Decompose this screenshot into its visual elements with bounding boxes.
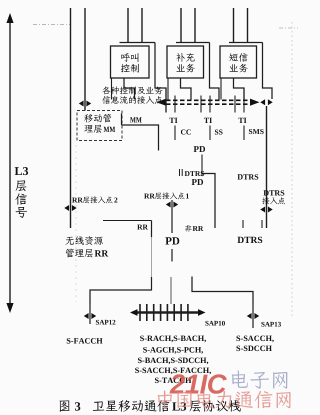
label S-FACCH xyxy=(67,338,103,344)
SAP bowtie SAP13 xyxy=(247,313,259,319)
cap bar above box 呼叫控制 call-control xyxy=(120,42,156,44)
label SAP12 xyxy=(96,320,116,325)
wire TI2-b xyxy=(209,96,211,113)
wire exit-a of box 短信业务 SMS-service xyxy=(220,78,222,100)
box 补充业务 supplementary-service xyxy=(167,46,204,78)
label radio-resource-mgmt RR line2 xyxy=(66,249,109,258)
label SS xyxy=(215,130,223,135)
label 呼叫控制 xyxy=(121,53,139,73)
wire MM-left long vertical xyxy=(70,8,72,228)
wire stair to SAP13 xyxy=(192,277,253,306)
faint dash-dot boundary top-right xyxy=(279,27,298,29)
dashed access line upper xyxy=(166,99,250,101)
wire tick below TI-2 xyxy=(209,126,211,141)
SAP bowtie DTRS-access xyxy=(260,207,272,213)
wire TI1-a xyxy=(165,88,167,113)
wire exit-b stair of box 呼叫控制 call-control xyxy=(124,78,135,100)
arrowhead left of dashed line xyxy=(157,99,167,106)
wire SMS entry 1 xyxy=(233,8,235,43)
caption fig3 xyxy=(60,400,241,412)
box 呼叫控制 call-control xyxy=(111,46,150,78)
label DTRS-access-point xyxy=(262,190,285,204)
watermark 电子网 xyxy=(232,370,288,388)
cap bar above box 补充业务 supplementary-service xyxy=(176,42,210,44)
label TI-3 xyxy=(238,118,246,123)
SAP bowtie RR-access-1 xyxy=(166,202,178,208)
wire exit-b stair of box 短信业务 SMS-service xyxy=(234,78,245,100)
label RR wire xyxy=(137,225,148,230)
wire exit-a of box 呼叫控制 call-control xyxy=(111,78,113,100)
wire PD main vertical lower xyxy=(171,249,172,304)
wire tick below TI-3 xyxy=(243,126,245,141)
comb multi-SAP line with ticks xyxy=(130,304,206,321)
dashed access line lower xyxy=(166,103,250,105)
label SAP10 xyxy=(205,321,225,326)
box 短信业务 SMS-service xyxy=(220,46,257,78)
SAP bowtie SAP12 xyxy=(84,313,96,319)
wire MM bracket xyxy=(122,114,159,151)
label various control/service info flow access points xyxy=(102,86,162,104)
wire DTRS column vertical xyxy=(266,106,268,228)
box mobility-management MM (dashed) xyxy=(77,111,122,141)
wire stair right of box 补充业务 supplementary-service xyxy=(210,43,220,101)
wire SS entry 1 xyxy=(180,8,182,43)
label non-RR xyxy=(185,225,204,232)
label 移动管理层MM xyxy=(84,114,115,133)
wire below PD-1 xyxy=(201,155,203,177)
wire TI1-b xyxy=(174,96,176,113)
wire TI3-a xyxy=(234,96,236,113)
wire TI3-b xyxy=(243,88,245,113)
label S-AGCH,S-PCH, xyxy=(143,347,203,354)
wire tick above DTRS bottom xyxy=(243,220,262,228)
wire stair right of box 呼叫控制 call-control xyxy=(155,43,166,113)
SAP bowtie right end of dashed line xyxy=(260,99,272,105)
label 短信业务 xyxy=(229,53,247,72)
faint dash-dot boundary top-left xyxy=(33,24,70,26)
cap bar above box 短信业务 SMS-service xyxy=(229,42,263,44)
arrow L3-signal double-headed vertical arrow xyxy=(6,13,13,313)
label S-RACH,S-BACH, xyxy=(140,336,206,343)
wire MM-right vertical to dashed box xyxy=(84,8,86,111)
faint dotted vertical right edge xyxy=(291,22,293,318)
label radio-resource-mgmt RR line1 xyxy=(65,236,103,245)
label S-BACH,S-SDCCH, xyxy=(138,358,208,365)
watermark 中国电力通信网 xyxy=(158,390,291,408)
label CC xyxy=(181,130,191,135)
wire exit-a of box 补充业务 supplementary-service xyxy=(167,78,169,100)
label PD-3 xyxy=(165,237,179,244)
label S-TACCH xyxy=(155,378,191,384)
wire CC entry 2 xyxy=(141,8,143,43)
arrowhead right of dashed line xyxy=(250,99,260,106)
wire SAP12 vertical xyxy=(89,304,91,324)
label MM above bracket xyxy=(130,117,142,122)
label S-SACCH,S-FACCH, xyxy=(135,368,211,375)
label DTRS mid xyxy=(237,174,258,179)
label DTRS bottom xyxy=(237,237,262,243)
faint fold line left xyxy=(75,145,77,302)
wire SMS entry 2 xyxy=(247,8,249,43)
label S-SDCCH right xyxy=(236,346,271,352)
label SAP13 xyxy=(261,322,281,327)
wire CC entry 1 xyxy=(127,8,129,43)
SAP bowtie RR-access-2 xyxy=(64,205,76,211)
label S-SACCH right xyxy=(236,336,273,343)
label 补充业务 xyxy=(176,53,194,72)
wire exit-b stair of box 补充业务 supplementary-service xyxy=(181,78,192,100)
label paral-DTRS xyxy=(180,169,205,176)
wire tick below TI-1 xyxy=(174,126,176,141)
label SMS xyxy=(249,129,264,134)
label PD-2 xyxy=(192,179,203,185)
wire SAP13 vertical xyxy=(252,305,254,328)
label RR-access-point-1 xyxy=(144,192,189,199)
wire stair right of box 短信业务 SMS-service xyxy=(263,43,273,100)
wire RR bracket vertical long xyxy=(151,221,153,291)
wire PD main vertical upper xyxy=(171,200,173,233)
wire RR bracket horizontal xyxy=(103,220,152,222)
label TI-2 xyxy=(204,118,212,123)
label RR-access-point-2 xyxy=(72,196,117,203)
SAP bowtie on MM wire xyxy=(79,101,91,107)
wire TI2-a xyxy=(200,96,202,113)
wire stair to SAP12 xyxy=(90,290,152,304)
watermark 21IC xyxy=(170,374,227,393)
label L3 layer signal (vertical) xyxy=(15,167,28,218)
wire branch to DTRS xyxy=(203,174,216,229)
label PD-1 xyxy=(194,146,205,152)
label TI-1 xyxy=(169,118,177,123)
wire SS entry 2 xyxy=(194,8,196,43)
